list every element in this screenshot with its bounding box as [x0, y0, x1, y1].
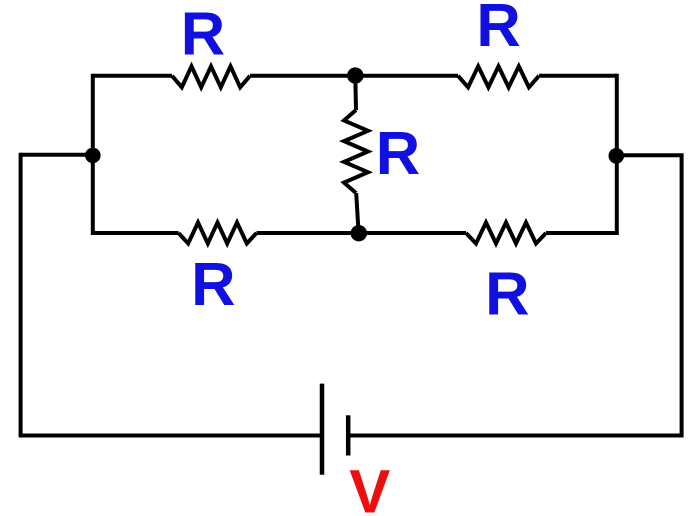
wire right stub to outer loop	[616, 153, 683, 157]
resistor R3 (middle vertical)	[344, 110, 368, 193]
node dot left	[85, 148, 101, 164]
wire bottom rail right segment	[546, 231, 617, 235]
wire left stub to outer loop	[21, 153, 93, 157]
wire top rail left segment	[93, 74, 172, 78]
battery V long plate (positive)	[320, 384, 325, 475]
wire bottom rail left segment	[93, 231, 179, 235]
wire bottom rail middle segment	[257, 231, 467, 235]
node dot right	[609, 148, 625, 164]
svg-text:V: V	[349, 457, 390, 516]
svg-text:R: R	[376, 119, 420, 188]
battery V short plate (negative)	[346, 415, 351, 455]
node dot top center	[347, 67, 363, 83]
node dot bottom center	[351, 225, 367, 241]
wire top rail middle segment	[250, 74, 458, 78]
svg-text:R: R	[485, 259, 529, 328]
wire middle branch upper	[353, 76, 358, 110]
resistor R5 (bottom right)	[466, 223, 546, 244]
resistor R1 (top left)	[172, 66, 250, 87]
resistor R2 (top right)	[458, 66, 539, 87]
wire middle branch lower	[356, 193, 358, 233]
svg-text:R: R	[191, 250, 235, 319]
resistor R4 (bottom left)	[179, 223, 257, 244]
wire right inner vertical	[615, 74, 619, 235]
wire left inner vertical	[91, 74, 95, 235]
wire right outer vertical	[680, 155, 684, 437]
wire top rail right segment	[539, 74, 617, 78]
wire bottom left to battery	[19, 434, 322, 438]
svg-text:R: R	[476, 0, 520, 60]
wire left outer vertical	[19, 153, 23, 436]
svg-text:R: R	[181, 0, 225, 69]
wire battery to bottom right	[348, 434, 681, 438]
